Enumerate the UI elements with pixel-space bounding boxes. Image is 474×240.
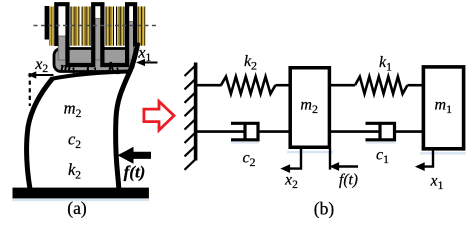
damper c1 cylinder [366, 123, 395, 140]
gray prong 1 (lower comb finger in unit 1) [58, 36, 65, 60]
wall hatch 3 [185, 91, 197, 103]
piezo stack B (left of unit 2) [82, 7, 91, 46]
f(t) force arrow (panel a) [133, 152, 152, 159]
upper comb meander (black interdigitated fingers) [56, 4, 135, 65]
barrel (mass m2) right curved edge with top hook [116, 43, 138, 191]
damper c1 piston plate [378, 123, 381, 140]
shadow under damper c1 [366, 142, 396, 144]
piezo stack far-left electrode bar [45, 6, 49, 40]
spring k1 zigzag [355, 77, 407, 94]
svg-text:f(t): f(t) [124, 163, 146, 182]
damper c2 piston plate [243, 123, 246, 140]
wall hatch 7 [185, 145, 197, 157]
dashed neutral axis line [34, 25, 157, 27]
damper c2 left rod [196, 130, 246, 133]
gray prong 3 (lower comb finger in unit 3) [129, 22, 134, 61]
wall hatch 4 [185, 105, 197, 117]
fixed wall line [194, 63, 198, 161]
barrel top edge line [51, 72, 131, 80]
shadow under base bar [12, 199, 149, 202]
spring k2 left rod [196, 84, 222, 87]
x2 displacement arrow (panel b) [289, 149, 301, 169]
piezo stack 0 (left of unit 1) [49, 7, 53, 46]
damper c2 right rod [258, 130, 289, 133]
barrel (mass m2) left curved edge [27, 79, 53, 190]
mass m1 box (panel b) [423, 67, 463, 149]
spring k1 left rod [331, 84, 355, 87]
shadow under damper c2 [231, 142, 259, 144]
damper c1 left rod [331, 130, 381, 133]
shadow under mass m1 [420, 152, 466, 154]
ground base bar (panel a) [13, 188, 149, 199]
wall hatch 6 [185, 132, 197, 144]
piezo stack D (left of unit 3) [116, 7, 125, 46]
x2 vertical dashed reference line [29, 73, 31, 106]
red transform arrow between panels [144, 101, 174, 130]
wall hatch 1 [185, 65, 197, 77]
damper c1 right rod [395, 130, 423, 133]
piezo stack A (right of unit 1) [70, 7, 79, 46]
svg-text:(b): (b) [314, 199, 335, 219]
piezo stack E (right of unit 3) [138, 7, 146, 46]
shadow under mass m2 [287, 151, 333, 153]
lower comb gray base block (m1 c1 k1 body) [54, 49, 134, 72]
wall hatch 8 [185, 158, 197, 170]
x1 displacement arrow (panel b) [424, 150, 433, 166]
x2 displacement arrow (panel a) [31, 74, 54, 76]
spring k2 zigzag [221, 77, 275, 94]
wall hatch 5 [185, 118, 197, 130]
f(t) force arrow (panel b) [329, 149, 331, 170]
gray prong 2 (lower comb finger in unit 2) [95, 19, 101, 61]
wall hatch 2 [185, 78, 197, 90]
piezo stack C (right of unit 2) [106, 7, 115, 46]
spring k1 right rod [407, 84, 422, 87]
svg-text:f(t): f(t) [339, 172, 358, 189]
damper c2 cylinder [231, 123, 258, 140]
mass m2 box (panel b) [290, 68, 329, 148]
spring k2 right rod [275, 84, 289, 87]
svg-text:(a): (a) [67, 198, 87, 218]
x1 displacement arrow (panel a) [139, 62, 158, 64]
